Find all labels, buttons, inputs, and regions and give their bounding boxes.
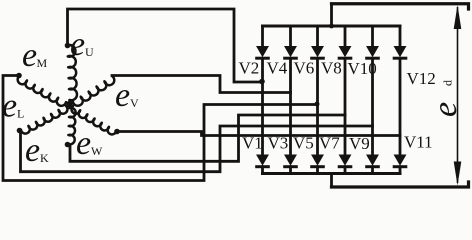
svg-text:V6: V6 [294, 59, 315, 78]
node: e_L terminal dot [17, 128, 23, 134]
wire: phase L route - down x=20.5, right y=171.7, up x=220, into column 5 [20, 126, 373, 172]
svg-text:d: d [441, 80, 455, 86]
svg-text:e: e [22, 37, 37, 74]
wire: bottom leg of column 5 to negative bus [371, 167, 374, 174]
diode V8 (top row) [339, 47, 351, 59]
svg-text:e: e [70, 26, 85, 63]
wire: bottom leg of column 4 to negative bus [344, 167, 347, 174]
label e_d (rotated) [427, 80, 464, 117]
winding e_L (phase L coil, lower-left) [21, 106, 68, 134]
svg-text:K: K [40, 151, 49, 165]
node: e_M terminal dot [16, 73, 22, 79]
wire: phase W route - right y=131.5, jog down at x=201.5, right y=135.5 into column 6 [117, 132, 400, 136]
wire: drop x=331.5 from bottom bus to DC bottom line [330, 174, 333, 188]
node: e_W terminal dot [114, 129, 120, 135]
svg-text:e: e [2, 88, 17, 125]
svg-text:V3: V3 [268, 134, 289, 153]
diode V5 (bottom row) [312, 155, 324, 167]
node: e_K terminal dot [65, 142, 71, 148]
diode V2 (top row) [257, 47, 269, 59]
svg-text:W: W [91, 144, 103, 158]
winding e_V (phase V coil, upper-right) [73, 76, 114, 106]
svg-text:V4: V4 [267, 59, 288, 78]
wire: DC output bottom line y=187 [332, 182, 469, 187]
diode V7 (bottom row) [339, 155, 351, 167]
diode V3 (bottom row) [285, 155, 297, 167]
node: star neutral point (center junction) [66, 101, 72, 107]
wire: column 4 mid segment to phase node [344, 60, 347, 115]
diode V10 (top row) [367, 47, 379, 59]
wire: column 1 phase node down to bottom diode [261, 82, 264, 155]
wire: phase K route - down x=70, right y=161.3, up x=238.5, into column 4 [68, 115, 346, 161]
svg-text:V1: V1 [242, 134, 263, 153]
svg-text:V: V [130, 96, 139, 110]
node: junction of phase M with column 3 [315, 102, 320, 107]
svg-text:L: L [17, 107, 24, 121]
wire: top leg of column 6 (x=400.0) [399, 26, 402, 47]
wire: column 6 phase node down to bottom diode [399, 136, 402, 156]
svg-text:e: e [115, 77, 130, 114]
wire: top leg of column 2 (x=290.5) [289, 26, 292, 47]
wire: bottom leg of column 2 to negative bus [289, 167, 292, 174]
node: junction of phase U with column 1 [259, 79, 265, 85]
wire: column 5 phase node down to bottom diode [371, 126, 374, 155]
diode V1 (bottom row) [257, 155, 269, 167]
wire: top leg of column 3 (x=317.5) [316, 26, 319, 47]
winding e_U (phase U coil, vertical up) [68, 45, 77, 100]
wire: column 6 mid segment to phase node [399, 60, 402, 136]
winding e_M (phase M coil, upper-left) [18, 76, 66, 106]
wire: column 1 mid segment to phase node [261, 60, 264, 82]
svg-text:e: e [25, 132, 40, 169]
svg-text:V8: V8 [321, 59, 342, 78]
diode V4 (top row) [285, 47, 297, 59]
wire: DC output top line y=3.75 [332, 4, 469, 9]
wire: column 2 phase node down to bottom diode [289, 93, 292, 156]
winding e_W (phase W coil, lower-right) [71, 106, 116, 134]
svg-text:V5: V5 [293, 134, 314, 153]
winding e_K (phase K coil, straight down) [68, 108, 76, 145]
wire: bottom leg of column 1 to negative bus [261, 167, 264, 174]
node: junction of riser with top bus [329, 24, 334, 29]
diode V12 (top row) [394, 47, 406, 59]
wire: column 3 phase node down to bottom diode [316, 105, 319, 156]
wire: phase V route - right at y=75.5, down x=220, into column 2 [112, 76, 291, 93]
svg-text:e: e [76, 125, 91, 162]
wire: negative (bottom) diode bus y=173.5 [263, 172, 401, 175]
svg-text:V11: V11 [404, 133, 433, 152]
diode V11 (bottom row) [394, 155, 406, 167]
wire: column 5 mid segment to phase node [371, 60, 374, 126]
wire: phase M route - left, down left edge x=3, bottom y=180.5, up x=204, into column 3 [3, 76, 318, 181]
wire: column 3 mid segment to phase node [316, 60, 319, 105]
measurement arrow e_d: double-headed vertical arrow at x=457.5 [454, 5, 462, 186]
wire: riser x=331.5 from top bus to DC top line [330, 4, 333, 26]
svg-text:V9: V9 [349, 134, 370, 153]
wire: top leg of column 4 (x=345.0) [344, 26, 347, 47]
svg-text:U: U [85, 45, 94, 59]
wire: top leg of column 1 (x=262.5) [261, 26, 264, 47]
wire: column 4 phase node down to bottom diode [344, 115, 347, 155]
wire: positive (top) diode bus y=26 [263, 25, 401, 28]
wire: phase U route - up from coil, across top y=9, down x=234, into column 1 [68, 9, 263, 82]
svg-text:e: e [427, 102, 464, 117]
svg-text:V7: V7 [319, 134, 340, 153]
wire: bottom leg of column 6 to negative bus [399, 167, 402, 174]
wire: bottom leg of column 3 to negative bus [316, 167, 319, 174]
diode V9 (bottom row) [367, 155, 379, 167]
svg-text:V12: V12 [407, 69, 436, 88]
diode V6 (top row) [312, 47, 324, 59]
wire: column 2 mid segment to phase node [289, 60, 292, 93]
svg-text:M: M [37, 56, 48, 70]
svg-text:V2: V2 [239, 59, 260, 78]
svg-text:V10: V10 [348, 59, 377, 78]
wire: top leg of column 5 (x=372.5) [371, 26, 374, 47]
node: e_U terminal dot [65, 43, 71, 49]
